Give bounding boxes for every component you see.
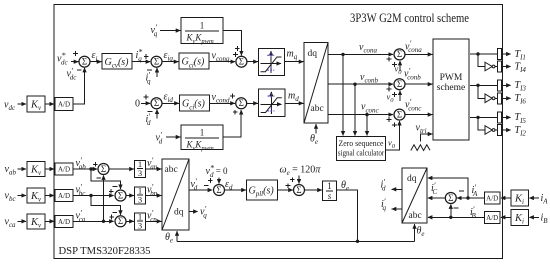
feedforward block 1/KvKpwm (d): [181, 125, 223, 152]
wire S8 to integrator: [305, 189, 322, 191]
minus sign S7 left: [204, 185, 209, 187]
summing junction S5: [236, 98, 247, 109]
junction vab-prime: [89, 167, 92, 170]
wire gate output T5: [502, 116, 511, 118]
label TI6: [515, 93, 527, 106]
zero sequence signal calculator block: [337, 137, 386, 161]
wire vdc-prime feedback to S1: [73, 68, 85, 104]
wire Gpll to S8: [278, 189, 293, 191]
plus sign S3 top input: [235, 46, 240, 51]
wire vconc drop to zero-sequence calculator: [366, 115, 368, 136]
label vd-prime: [191, 177, 198, 192]
wire vd-prime to S7: [189, 189, 212, 191]
plus sign S6a bottom: [392, 62, 397, 67]
node vca: [5, 216, 17, 229]
wire vab to Kv: [18, 168, 27, 170]
label vca-prime: [76, 208, 86, 223]
plus sign S5 left input: [230, 94, 235, 99]
svg-text:3: 3: [138, 195, 142, 205]
wire S5 to limiter d: [247, 102, 258, 104]
label epsilon-id: [164, 92, 174, 105]
wire to inverter c: [478, 117, 485, 130]
wire PWM output phase b: [470, 84, 497, 86]
svg-text:A/D: A/D: [58, 166, 70, 174]
wire vtri to PWM: [420, 134, 432, 142]
wire vca to Kv: [18, 220, 27, 222]
gate buffer T1: [498, 49, 502, 60]
svg-text:v′d: v′d: [156, 130, 163, 145]
wire S1 to Gcv: [90, 61, 101, 63]
title label 3P3W G2M control scheme: [350, 10, 469, 25]
svg-text:i*q: i*q: [136, 48, 143, 63]
label vcond: [212, 92, 231, 105]
plus sign S6c bottom: [392, 122, 397, 127]
junction PWM output c: [476, 116, 479, 119]
wire S6c to PWM: [405, 114, 432, 116]
logic inverter (NOT gate) phase b: [485, 94, 495, 103]
wire Kv to AD (bc): [45, 195, 54, 197]
svg-text:3: 3: [138, 168, 142, 178]
label vconb-prime: [404, 66, 421, 81]
wire omega-e to S8: [298, 176, 300, 184]
svg-text:1: 1: [200, 128, 205, 138]
label vd-star equals zero: [206, 164, 229, 179]
wire vcona drop to zero-sequence calculator: [342, 54, 344, 135]
svg-text:A/D: A/D: [486, 195, 498, 203]
junction vconc: [365, 113, 368, 116]
label TI2: [515, 125, 527, 138]
gain block one-third (cn): [135, 212, 146, 231]
wire vconc to S6c: [328, 114, 393, 116]
label v0 output: [388, 138, 396, 151]
PLL controller Gpll(s): [247, 180, 278, 200]
svg-text:Gci(s): Gci(s): [182, 57, 206, 70]
wire Kv to AD (vdc): [45, 103, 54, 105]
wire v0 from calculator to S6c: [386, 121, 400, 150]
wire integrator to theta distribution: [337, 190, 358, 241]
wire S6b to PWM: [405, 83, 432, 85]
svg-text:Σ: Σ: [448, 193, 453, 203]
wire vd-prime to feedforward: [166, 136, 180, 138]
wire 0 to S4: [141, 102, 150, 104]
wire SV3 to third3: [126, 220, 134, 222]
A/D converter (ca): [55, 215, 73, 227]
wire inverter to gate buffer a: [495, 66, 497, 68]
junction vcona: [341, 53, 344, 56]
wire Ki to AD (iB): [501, 216, 511, 218]
svg-text:A/D: A/D: [486, 214, 498, 222]
wire limiter d to dq-abc: [285, 102, 303, 104]
saturation limiter d-axis: [259, 89, 286, 117]
svg-text:Σ: Σ: [239, 57, 244, 67]
gain block Kv (bc): [27, 188, 45, 204]
gate buffer T2: [498, 125, 502, 136]
label theta-e output: [341, 180, 349, 193]
label vab-prime: [76, 156, 87, 171]
wire S7 to Gpll: [225, 189, 246, 191]
label omega-e 120pi: [280, 165, 322, 178]
plus sign SV1: [93, 162, 98, 167]
svg-text:Σ: Σ: [216, 185, 221, 195]
plus sign S6c left: [387, 117, 392, 122]
svg-text:Σ: Σ: [118, 216, 123, 226]
label vtri: [416, 123, 427, 136]
wire vbc-prime to SV2: [73, 195, 114, 197]
wire v0 stub to S6a: [399, 61, 401, 71]
wire vq-prime stub: [189, 211, 198, 213]
wire vbc-prime cross to SV3: [91, 196, 121, 215]
node zero reference: [135, 99, 140, 110]
junction vca-prime: [102, 220, 105, 223]
gain block Ki (iB): [511, 209, 529, 225]
svg-text:A/D: A/D: [58, 101, 70, 109]
plus sign S2 input: [144, 54, 149, 59]
svg-text:signal calculator: signal calculator: [338, 149, 385, 158]
svg-text:3P3W G2M control scheme: 3P3W G2M control scheme: [350, 10, 469, 25]
gate buffer T3: [498, 80, 502, 91]
dq to abc transform block (modulation): [304, 43, 328, 124]
summing junction S9 (iC calc): [445, 193, 456, 204]
wire third to abc-dq (bn): [146, 195, 162, 197]
label vbc-prime: [76, 183, 87, 198]
svg-text:dq: dq: [407, 174, 417, 184]
label vcn-prime: [147, 208, 157, 223]
label iq-prime: [146, 70, 152, 85]
svg-text:Zero sequence: Zero sequence: [339, 139, 384, 148]
logic inverter (NOT gate) phase a: [485, 62, 495, 71]
junction vbc-prime: [89, 194, 92, 197]
node vbc: [5, 191, 17, 204]
summing junction S6a: [394, 49, 405, 60]
label mq: [287, 49, 298, 62]
wire S4 to Gci d: [163, 102, 179, 104]
wire iB-prime to S9: [450, 204, 452, 217]
svg-text:v′d: v′d: [191, 177, 198, 192]
wire vd-star to S7: [218, 178, 220, 184]
wire iq-prime output: [392, 208, 402, 210]
svg-text:Σ: Σ: [296, 185, 301, 195]
plus sign SV2: [109, 189, 114, 194]
svg-text:0: 0: [135, 99, 140, 110]
svg-text:dq: dq: [308, 49, 318, 59]
label epsilon-i: [92, 50, 98, 63]
wire feedforward d to S5: [223, 110, 241, 137]
junction theta-e line: [356, 240, 359, 243]
label vcona-prime: [405, 39, 422, 54]
summing junction SV1: [98, 164, 109, 175]
wire limiter q to dq-abc: [285, 61, 304, 63]
wire S6a to PWM: [405, 53, 432, 55]
wire theta-e stub to modulation block: [315, 124, 317, 133]
wire id-prime output: [392, 188, 402, 190]
wire vca-prime to SV3: [73, 220, 114, 222]
wire third to abc-dq (cn): [146, 220, 162, 222]
minus sign SV3: [112, 212, 117, 214]
label TI3: [515, 80, 527, 93]
wire theta-e to current transform: [414, 224, 416, 241]
wire to inverter a: [478, 54, 485, 67]
wire iA to Ki: [529, 197, 539, 199]
integrator block 1/s: [323, 181, 337, 201]
wire third to abc-dq (an): [146, 168, 162, 170]
label iA-prime: [472, 183, 479, 198]
summing junction S6c: [394, 109, 405, 120]
gain block Kv (ca): [27, 214, 45, 230]
wire Ki to AD (iA): [501, 197, 511, 199]
gate buffer T4: [498, 61, 502, 72]
svg-text:abc: abc: [409, 211, 422, 221]
label epsilon-d: [225, 179, 233, 192]
summing junction S2: [151, 56, 162, 67]
wire Gcv to S2: [132, 61, 150, 63]
minus sign S2 feedback: [147, 69, 152, 71]
dq to abc transform block (current): [402, 168, 427, 223]
label TI1: [515, 49, 526, 62]
summing junction S4: [151, 98, 162, 109]
label iB-prime: [470, 205, 477, 220]
plus sign S8 top: [290, 177, 295, 182]
summing junction S1: [79, 56, 90, 67]
gain block Kv (vdc): [27, 96, 45, 112]
svg-text:Σ: Σ: [239, 98, 244, 108]
wire iB-prime to transform: [428, 216, 485, 218]
wire vbc to Kv: [18, 195, 27, 197]
wire vab-prime to SV1: [73, 168, 97, 170]
node vd-prime input: [156, 130, 163, 145]
svg-text:PWM: PWM: [440, 73, 463, 83]
wire inverter to gate buffer b: [495, 97, 497, 99]
wire vconb to S6b: [328, 83, 393, 85]
wire vq-prime to feedforward: [160, 30, 180, 32]
label id-prime: [146, 112, 152, 127]
label TI5: [515, 112, 527, 125]
wire iB to Ki: [529, 216, 539, 218]
wire vab-prime cross to SV2: [91, 169, 121, 189]
wire theta-e to voltage transform: [176, 231, 178, 241]
PWM scheme block: [433, 39, 469, 140]
wire Gci d to S5: [210, 102, 235, 104]
wire to inverter b: [478, 85, 485, 98]
label vcona: [359, 42, 378, 55]
label theta-e voltage transform: [165, 232, 173, 245]
wire SV2 to third2: [126, 195, 134, 197]
node vq-prime: [151, 23, 158, 38]
wire v0 stub to S6b: [399, 91, 401, 101]
svg-text:abc: abc: [165, 165, 178, 175]
node iA: [541, 193, 549, 206]
wire feedforward q to S3: [223, 31, 241, 56]
label van-prime: [147, 156, 158, 171]
plus sign S6b left: [387, 87, 392, 92]
node vdc-star reference: [57, 51, 68, 66]
label vbn-prime: [147, 183, 158, 198]
svg-text:Σ: Σ: [397, 109, 402, 119]
junction iA-prime: [466, 196, 469, 199]
svg-text:abc: abc: [311, 104, 324, 114]
minus sign SV2: [113, 186, 118, 188]
label id-prime output: [381, 177, 387, 192]
svg-text:v′q: v′q: [151, 23, 158, 38]
abc to dq transform block (voltage): [162, 159, 189, 230]
svg-text:scheme: scheme: [437, 83, 466, 93]
current controller Gci(s) q-axis: [179, 53, 209, 69]
label iq-star: [136, 48, 143, 63]
summing junction SV3: [115, 216, 126, 227]
label vconc-prime: [405, 97, 422, 112]
svg-text:Σ: Σ: [154, 57, 159, 67]
svg-text:Σ: Σ: [82, 57, 87, 67]
junction PWM output a: [476, 52, 479, 55]
wire vdc to Kv: [18, 103, 27, 105]
triangle carrier waveform symbol: [411, 145, 430, 151]
label v0 stub a: [395, 64, 403, 77]
svg-text:Σ: Σ: [118, 190, 123, 200]
wire PWM output phase c: [470, 116, 497, 118]
label theta-e modulation: [310, 134, 318, 147]
wire Kv to AD (ca): [45, 220, 54, 222]
junction PWM output b: [476, 84, 479, 87]
wire iq-prime stub to S2: [156, 68, 158, 77]
minus sign SV1: [96, 177, 101, 179]
wire vca-prime cross to SV1: [103, 175, 105, 221]
node vab: [5, 164, 17, 177]
svg-text:Σ: Σ: [397, 79, 402, 89]
svg-text:Σ: Σ: [154, 98, 159, 108]
plus sign SV3: [109, 215, 114, 220]
svg-text:v′q: v′q: [200, 204, 207, 219]
wire iA-prime over-route to transform: [428, 178, 468, 198]
plus sign S8 left: [286, 183, 291, 188]
gain block Ki (iA): [511, 190, 529, 206]
label vq-prime output: [200, 204, 207, 219]
plus sign S1 input: [73, 51, 78, 56]
wire inverter to gate buffer c: [495, 129, 497, 131]
wire gate output T3: [502, 84, 511, 86]
A/D converter (ab): [55, 163, 73, 175]
summing junction S3: [236, 56, 247, 67]
label theta-e current transform: [417, 226, 425, 239]
plus sign S4 input: [144, 95, 149, 100]
plus sign S7 top: [208, 178, 213, 183]
A/D converter (iB): [485, 211, 501, 223]
svg-text:dq: dq: [174, 208, 184, 218]
gain block Kv (ab): [27, 162, 45, 178]
label iq-prime output: [381, 197, 387, 212]
wire vdc-star to S1: [71, 61, 78, 63]
svg-text:DSP TMS320F28335: DSP TMS320F28335: [59, 246, 151, 257]
label epsilon-iq: [164, 50, 174, 63]
label DSP TMS320F28335: [59, 246, 151, 257]
gate buffer T6: [498, 93, 502, 104]
DSP controller frame: [54, 5, 503, 259]
wire gate output T4: [502, 66, 511, 68]
label v0 stub b: [387, 92, 395, 105]
node iB: [541, 212, 549, 225]
label TI4: [515, 61, 527, 74]
label iC-prime: [431, 181, 438, 196]
logic inverter (NOT gate) phase c: [485, 126, 495, 135]
minus sign S9 bottom: [454, 207, 459, 209]
summing junction S7 (PLL error): [214, 185, 225, 196]
wire gate output T1: [502, 53, 511, 55]
wire S3 to limiter q: [247, 61, 258, 63]
svg-text:Σ: Σ: [397, 49, 402, 59]
wire iC-prime to transform: [428, 197, 446, 199]
summing junction S8 (frequency): [294, 185, 305, 196]
gate buffer T5: [498, 112, 502, 123]
minus sign S4 feedback: [148, 111, 153, 113]
svg-text:s: s: [328, 191, 332, 201]
wire Kv to AD (ab): [45, 168, 54, 170]
plus sign S5 bottom input: [233, 110, 238, 115]
minus sign S9 right: [459, 190, 464, 192]
wire S2 to Gci q: [163, 61, 179, 63]
svg-text:3: 3: [138, 221, 142, 231]
wire vcona to S6a: [328, 53, 393, 55]
gain block one-third (an): [135, 159, 146, 178]
svg-text:A/D: A/D: [58, 192, 70, 200]
wire PWM output phase a: [470, 53, 497, 55]
node vdc: [4, 100, 16, 113]
voltage controller Gcv(s): [102, 54, 132, 70]
label vconq: [212, 51, 231, 64]
label vdc-prime: [67, 66, 78, 81]
svg-text:Σ: Σ: [101, 164, 106, 174]
wire iA-prime to S9: [457, 197, 485, 199]
minus sign S1 feedback: [77, 69, 82, 71]
wire SV1 to third1: [109, 168, 134, 170]
junction iB-prime: [449, 216, 452, 219]
A/D converter (bc): [55, 190, 73, 202]
wire gate output T6: [502, 97, 511, 99]
label vconc: [361, 102, 380, 115]
feedforward block 1/KvKpwm (q): [181, 18, 223, 46]
wire id-prime stub to S4: [156, 110, 158, 119]
A/D converter (vdc): [55, 98, 73, 111]
wire gate output T2: [502, 129, 511, 131]
label md: [288, 91, 299, 104]
junction vconb: [353, 83, 356, 86]
svg-text:1: 1: [327, 181, 332, 191]
summing junction S6b: [394, 79, 405, 90]
A/D converter (iA): [485, 192, 501, 204]
summing junction SV2: [115, 190, 126, 201]
svg-text:ωe = 120π: ωe = 120π: [280, 165, 322, 178]
wire theta-e distribution line: [177, 240, 415, 242]
saturation limiter q-axis: [259, 49, 285, 76]
plus sign S6b bottom: [392, 92, 397, 97]
current controller Gci(s) d-axis: [180, 95, 210, 111]
label vconb: [360, 72, 379, 85]
plus sign S3 left input: [233, 52, 238, 57]
gain block one-third (bn): [135, 186, 146, 205]
svg-text:1: 1: [200, 21, 205, 31]
plus sign S6a left: [387, 57, 392, 62]
svg-text:A/D: A/D: [58, 218, 70, 226]
svg-text:Gci(s): Gci(s): [182, 99, 206, 112]
wire Gci to S3: [209, 61, 235, 63]
wire vconb drop to zero-sequence calculator: [354, 84, 356, 135]
